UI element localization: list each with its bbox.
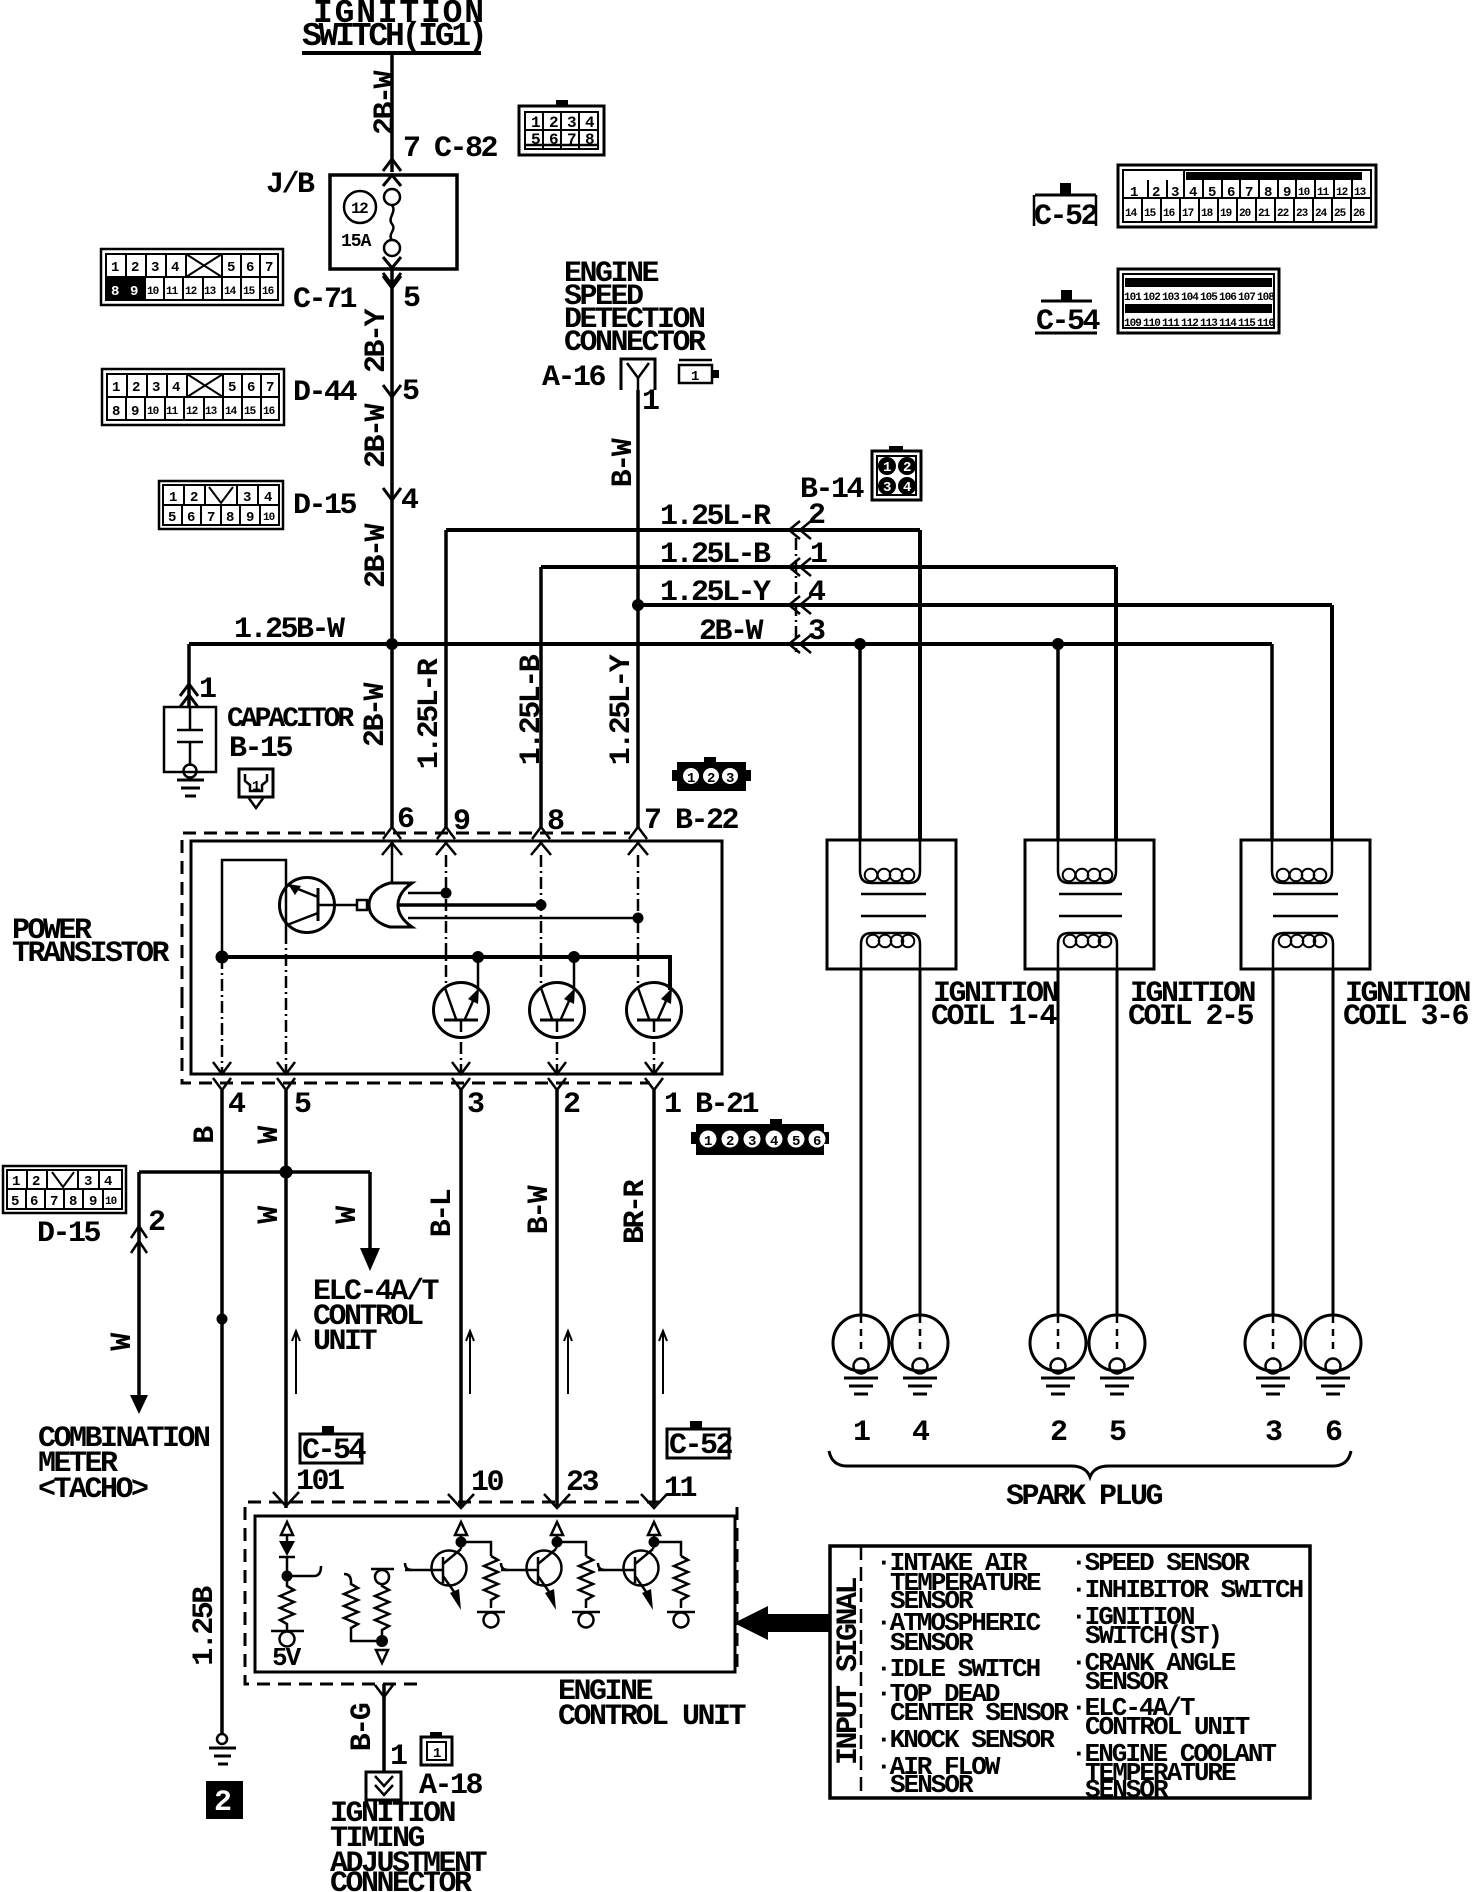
svg-text:4: 4: [401, 484, 419, 518]
svg-text:22: 22: [1277, 208, 1289, 220]
wire B-W down to power transistor pin 7: [636, 605, 640, 829]
svg-text:16: 16: [262, 286, 274, 298]
internal wire pin4 rail: [221, 957, 224, 1074]
svg-text:17: 17: [1182, 208, 1194, 220]
svg-text:5: 5: [403, 282, 420, 316]
svg-text:3: 3: [567, 114, 576, 132]
ignition coil 1-4 box: [827, 840, 956, 969]
svg-text:10: 10: [263, 512, 275, 524]
connector C-71 pass-through chevron: [383, 276, 401, 288]
wire 2B-W down to coil2: [1056, 644, 1060, 840]
svg-text:2: 2: [726, 1134, 734, 1150]
T1 feed wire: [477, 957, 480, 990]
svg-text:5: 5: [531, 131, 540, 149]
svg-text:5V: 5V: [272, 1643, 302, 1673]
fuse exit chevron below box: [383, 273, 401, 285]
junction dot A-16 tap: [632, 599, 644, 611]
fuse F12 symbol top terminal: [384, 189, 400, 205]
svg-text:1.25B: 1.25B: [188, 1586, 222, 1666]
fuse exit chevron inside box: [383, 257, 401, 268]
gate output to pin8 net: [399, 903, 541, 907]
coil 3-6 core: [1273, 893, 1338, 896]
svg-text:104: 104: [1181, 292, 1199, 304]
power transistor dashed outline bottom: [182, 995, 650, 1083]
svg-text:2B-W: 2B-W: [359, 682, 393, 747]
svg-text:1: 1: [12, 1174, 20, 1190]
svg-text:1: 1: [810, 538, 827, 572]
svg-text:16: 16: [1163, 208, 1175, 220]
ECU transistor Q3: [624, 1551, 659, 1586]
svg-text:W: W: [253, 1126, 287, 1144]
junction dot pin8 net: [536, 900, 547, 911]
svg-text:2: 2: [563, 1088, 580, 1122]
transistor T3 base bar: [637, 1019, 671, 1022]
svg-text:8: 8: [111, 284, 119, 300]
ECU resistor R6: [674, 1556, 688, 1608]
svg-text:15: 15: [244, 406, 257, 418]
pin 1 exit chevrons: [645, 1062, 663, 1090]
ECU R6 ground terminal: [667, 1611, 695, 1614]
T2 feed wire: [573, 957, 576, 990]
svg-text:11: 11: [664, 1472, 697, 1506]
ignition coil 3-6 box: [1241, 840, 1370, 969]
coil 2-5 core: [1059, 893, 1122, 896]
power transistor dashed outline top: [182, 833, 630, 1000]
coil 1-4 primary winding: [860, 840, 920, 883]
svg-text:1: 1: [642, 385, 659, 419]
coil 3-6 primary winding: [1272, 840, 1332, 883]
svg-text:2: 2: [549, 114, 558, 132]
svg-text:4: 4: [1189, 185, 1197, 201]
svg-text:16: 16: [263, 406, 275, 418]
svg-text:6: 6: [813, 1134, 821, 1150]
transistor Q0 base line to gate: [318, 904, 357, 907]
svg-text:4: 4: [171, 260, 179, 276]
svg-text:6: 6: [246, 260, 254, 276]
svg-text:C-52: C-52: [1034, 200, 1098, 234]
pin 9 entry chevrons: [436, 827, 456, 855]
ECU transistor Q1: [432, 1551, 467, 1586]
svg-text:1: 1: [883, 460, 891, 476]
svg-text:3: 3: [808, 615, 825, 649]
junction dot tacho tap: [280, 1166, 293, 1179]
svg-text:6: 6: [247, 380, 255, 396]
svg-text:·INHIBITOR SWITCH: ·INHIBITOR SWITCH: [1071, 1575, 1303, 1605]
svg-text:2: 2: [1152, 185, 1160, 201]
connector C-52 label icon top right: [1034, 183, 1098, 234]
input signal box: [830, 1546, 1310, 1798]
connector B-22 icon: [672, 757, 751, 791]
svg-text:106: 106: [1219, 292, 1236, 304]
wire 1.25L-R horizontal: [446, 528, 920, 532]
svg-text:B-L: B-L: [426, 1189, 460, 1237]
ground symbol below capacitor: [177, 780, 204, 796]
svg-text:113: 113: [1200, 318, 1218, 330]
svg-text:1.25L-B: 1.25L-B: [515, 654, 549, 765]
transistor T3 collector diagonal: [638, 988, 649, 1019]
transistor T1 collector diagonal: [445, 988, 456, 1019]
icon single-pin callout A-18: [421, 1732, 452, 1765]
svg-text:5: 5: [1208, 185, 1216, 201]
connector C-71 icon: [101, 249, 283, 305]
ECU solid box: [255, 1516, 735, 1672]
svg-text:SWITCH(IG1): SWITCH(IG1): [302, 18, 485, 55]
svg-text:3: 3: [1171, 185, 1179, 201]
svg-text:5: 5: [11, 1194, 19, 1210]
wire B-W from pin 2: [555, 1090, 559, 1508]
svg-text:10: 10: [1298, 187, 1310, 199]
svg-text:110: 110: [1143, 318, 1160, 330]
svg-text:SENSOR: SENSOR: [1085, 1775, 1169, 1805]
ECU Q3 collector to pin 11: [653, 1542, 654, 1549]
svg-text:2: 2: [190, 490, 198, 506]
svg-text:102: 102: [1143, 292, 1160, 304]
svg-text:11: 11: [1317, 187, 1330, 199]
svg-text:BR-R: BR-R: [619, 1179, 653, 1244]
svg-text:111: 111: [1162, 318, 1180, 330]
spark plug 4: [892, 1315, 948, 1371]
flow arrow on B-L wire: [466, 1331, 474, 1394]
transistor T2 circle: [530, 983, 585, 1038]
NOR gate body: [369, 883, 412, 927]
svg-text:2B-W: 2B-W: [360, 523, 394, 588]
wire W to D-15 and ELC unit: [139, 1170, 370, 1174]
wire 1.25L-Y vertical to coil3: [1330, 605, 1334, 840]
pin 3 exit chevrons: [452, 1062, 470, 1090]
transistor T1 base bar: [444, 1019, 478, 1022]
capacitor B-15 box: [164, 707, 216, 772]
ECU R4 ground terminal: [477, 1611, 505, 1614]
wire B from pin 4: [220, 1090, 224, 1734]
svg-text:7: 7: [1245, 185, 1253, 201]
svg-text:1: 1: [853, 1416, 870, 1450]
internal wire pin6 to NOR gate: [391, 843, 394, 883]
svg-text:8: 8: [226, 510, 234, 526]
connector D-44 icon: [102, 369, 284, 425]
transistor Q0 base bar: [317, 888, 320, 921]
svg-text:2: 2: [1050, 1416, 1067, 1450]
ECU Q2 load branch: [557, 1542, 586, 1556]
svg-text:2: 2: [214, 1786, 231, 1820]
B-14 pin 4 chevrons: [789, 596, 811, 614]
svg-text:4: 4: [903, 480, 911, 496]
svg-text:6: 6: [1227, 185, 1235, 201]
svg-text:B-W: B-W: [523, 1185, 557, 1234]
svg-text:13: 13: [204, 286, 217, 298]
svg-text:CONNECTOR: CONNECTOR: [564, 326, 706, 360]
svg-text:D-15: D-15: [293, 489, 357, 523]
svg-text:·SPEED SENSOR: ·SPEED SENSOR: [1071, 1548, 1250, 1578]
connector C-52 icon 26-pin: [1118, 165, 1376, 227]
B-14 pin 1 chevrons: [789, 558, 811, 576]
svg-text:1: 1: [111, 260, 119, 276]
connector C-54 icon at ECU: [300, 1426, 367, 1468]
svg-text:14: 14: [224, 286, 237, 298]
svg-text:103: 103: [1162, 292, 1180, 304]
connector A-16 Y contact: [627, 363, 649, 390]
transistor T2 output to pin 2: [556, 1020, 559, 1074]
wire down to D-15 pin 2: [137, 1172, 141, 1395]
junction dot main feed: [386, 638, 398, 650]
svg-text:3: 3: [726, 771, 734, 787]
svg-text:CENTER SENSOR: CENTER SENSOR: [890, 1698, 1069, 1728]
gate output to pin9 net: [408, 892, 446, 895]
wire 2B-W D-44 to D-15: [390, 500, 394, 645]
ground symbol: [209, 1747, 236, 1750]
svg-text:108: 108: [1257, 292, 1275, 304]
svg-text:112: 112: [1181, 318, 1198, 330]
svg-text:20: 20: [1239, 208, 1251, 220]
transistor T3 circle: [627, 983, 682, 1038]
NOR gate input bubble: [357, 900, 367, 910]
svg-text:23: 23: [566, 1466, 599, 1500]
svg-text:8: 8: [69, 1194, 77, 1210]
ECU Q1 load branch: [461, 1542, 491, 1556]
wire 1.25L-R vertical to coil1: [918, 530, 922, 840]
svg-text:10: 10: [147, 286, 159, 298]
transistor T3 output to pin 1: [653, 1020, 656, 1074]
svg-text:W: W: [331, 1206, 365, 1224]
svg-text:2B-W: 2B-W: [369, 70, 403, 135]
junction dot coil1 feed: [854, 638, 866, 650]
connector C-54 label icon top right: [1035, 290, 1101, 339]
svg-text:5: 5: [402, 375, 419, 409]
svg-text:B-G: B-G: [346, 1703, 380, 1751]
ECU transistor Q2: [527, 1551, 562, 1586]
svg-text:7 B-22: 7 B-22: [644, 804, 739, 838]
gate output to pin7 net: [408, 917, 638, 920]
wire 1.25L-B down to power transistor pin 8: [539, 567, 543, 829]
wire 1.25L-B horizontal: [541, 565, 1116, 569]
svg-text:19: 19: [1220, 208, 1232, 220]
svg-text:2: 2: [903, 460, 911, 476]
svg-text:2B-W: 2B-W: [360, 403, 394, 468]
pin 11 entry chevron: [641, 1494, 667, 1508]
svg-text:9: 9: [131, 404, 139, 420]
svg-text:12: 12: [351, 200, 368, 218]
junction dot pin9 net: [441, 888, 452, 899]
svg-text:CAPACITOR: CAPACITOR: [227, 704, 354, 735]
flow arrow on BR-R wire: [659, 1331, 667, 1394]
svg-text:13: 13: [1354, 187, 1367, 199]
svg-text:6: 6: [187, 510, 195, 526]
connector C-54 icon 16-pin: [1118, 269, 1279, 333]
svg-text:<TACHO>: <TACHO>: [38, 1473, 148, 1507]
svg-text:4: 4: [770, 1134, 778, 1150]
wire B-L from pin 3: [459, 1090, 463, 1508]
svg-text:7: 7: [207, 510, 215, 526]
svg-text:3: 3: [748, 1134, 756, 1150]
svg-text:B-W: B-W: [607, 438, 641, 487]
svg-text:10: 10: [147, 406, 159, 418]
pin 8 entry chevrons: [531, 827, 551, 855]
spark plug wire to plug 6: [1332, 969, 1335, 1316]
wire 2B-W continues to power transistor pin 6: [390, 644, 394, 829]
svg-text:8: 8: [1264, 185, 1272, 201]
svg-text:4: 4: [264, 490, 272, 506]
ECU resistor R1: [280, 1576, 294, 1630]
svg-text:SWITCH(ST): SWITCH(ST): [1085, 1621, 1221, 1651]
svg-text:5: 5: [228, 380, 236, 396]
svg-text:107: 107: [1238, 292, 1255, 304]
svg-text:9: 9: [130, 284, 138, 300]
svg-text:2: 2: [131, 260, 139, 276]
svg-text:3: 3: [243, 490, 251, 506]
svg-text:13: 13: [205, 406, 218, 418]
wire 1.25L-Y horizontal: [638, 603, 1332, 607]
ECU output triangle down: [376, 1650, 388, 1663]
ECU Q1 collector to pin 10: [460, 1542, 463, 1549]
svg-text:1: 1: [252, 779, 260, 795]
ignition coil 2-5 box: [1025, 840, 1154, 969]
svg-text:15A: 15A: [341, 232, 372, 252]
svg-text:C-54: C-54: [302, 1434, 367, 1468]
ECU 5V terminal: [271, 1630, 304, 1633]
svg-text:CONNECTOR: CONNECTOR: [330, 1867, 472, 1892]
input signal arrow to ECU: [734, 1606, 768, 1640]
coil 2-5 secondary winding: [1058, 933, 1117, 969]
ground terminal circle: [217, 1734, 227, 1744]
transistor T2 collector diagonal: [541, 988, 552, 1019]
svg-text:10: 10: [471, 1466, 504, 1500]
svg-text:6: 6: [30, 1194, 38, 1210]
svg-text:12: 12: [186, 406, 198, 418]
spark plug wire to plug 2: [1057, 969, 1060, 1316]
svg-text:SPARK PLUG: SPARK PLUG: [1006, 1480, 1163, 1514]
svg-text:14: 14: [225, 406, 238, 418]
svg-text:1: 1: [704, 1134, 712, 1150]
svg-text:1: 1: [199, 673, 216, 707]
spark plug wire to plug 4: [919, 969, 922, 1316]
svg-text:2B-Y: 2B-Y: [360, 308, 394, 373]
emitter bus: [222, 957, 670, 990]
ground reference 2 black box: [206, 1781, 243, 1819]
connector D-15 icon lower left: [3, 1166, 126, 1213]
svg-text:1: 1: [112, 380, 120, 396]
pin 5 exit chevrons: [277, 1062, 295, 1090]
capacitor element: [177, 707, 203, 766]
svg-text:15: 15: [1144, 208, 1157, 220]
junction dot pin7 net: [633, 913, 644, 924]
svg-text:SENSOR: SENSOR: [890, 1770, 974, 1800]
svg-text:14: 14: [1125, 208, 1138, 220]
transistor T2 base bar: [540, 1019, 574, 1022]
icon single-pin callout for A-16: [679, 360, 719, 385]
connector D-44 chevron: [383, 385, 401, 397]
svg-text:116: 116: [1257, 318, 1274, 330]
svg-text:3: 3: [883, 480, 891, 496]
svg-text:3: 3: [151, 260, 159, 276]
svg-text:2B-W: 2B-W: [699, 615, 764, 649]
spark plug wire to plug 5: [1116, 969, 1119, 1316]
svg-text:2: 2: [32, 1174, 40, 1190]
connector B-14 icon: [872, 446, 921, 500]
svg-text:1: 1: [1130, 185, 1138, 201]
spark plug 5: [1089, 1315, 1145, 1371]
fuse F12 element: [391, 205, 394, 240]
transistor Q0 collector emitter rail: [285, 878, 288, 932]
internal rail corner to PNP transistor: [222, 860, 286, 957]
wire 2B-W down to coil3: [1270, 644, 1274, 840]
ECU resistor R5: [579, 1556, 593, 1608]
svg-text:UNIT: UNIT: [313, 1325, 378, 1359]
wire to ELC-4A/T control unit: [368, 1172, 372, 1248]
junction dot on B wire: [217, 1314, 228, 1325]
wire B-G from ECU: [382, 1684, 386, 1772]
pin 23 entry chevron: [544, 1494, 570, 1508]
svg-text:D-44: D-44: [293, 376, 358, 410]
brace under spark plugs: [829, 1451, 1351, 1477]
svg-text:12: 12: [1336, 187, 1348, 199]
svg-text:·KNOCK SENSOR: ·KNOCK SENSOR: [876, 1725, 1055, 1755]
connector C-82 icon: [519, 100, 604, 155]
svg-text:A-16: A-16: [542, 361, 606, 395]
svg-text:15: 15: [243, 286, 256, 298]
svg-text:9: 9: [246, 510, 254, 526]
svg-text:1 B-21: 1 B-21: [664, 1088, 759, 1122]
svg-text:1.25L-B: 1.25L-B: [660, 538, 771, 572]
svg-text:21: 21: [1258, 208, 1271, 220]
spark plug 2: [1030, 1315, 1086, 1371]
B-14 connector grouping line: [795, 538, 798, 652]
node underline: [302, 51, 481, 55]
svg-text:9: 9: [89, 1194, 97, 1210]
svg-text:2: 2: [148, 1206, 165, 1240]
coil 1-4 core: [861, 893, 926, 896]
flow arrow on W wire: [292, 1331, 300, 1394]
ECU dashed outline right: [736, 1507, 739, 1671]
connector B-21 icon: [691, 1119, 829, 1155]
pin 7 entry chevrons: [628, 827, 648, 855]
svg-text:2: 2: [707, 771, 715, 787]
svg-text:C-71: C-71: [293, 283, 357, 317]
svg-text:COIL 2-5: COIL 2-5: [1128, 1000, 1254, 1034]
svg-text:3: 3: [467, 1088, 484, 1122]
B-14 pin 2 chevrons: [789, 521, 811, 539]
svg-text:1: 1: [390, 1740, 407, 1774]
svg-text:1.25L-Y: 1.25L-Y: [605, 654, 639, 765]
svg-text:B: B: [189, 1126, 223, 1144]
capacitor pin 1 chevrons: [180, 684, 198, 707]
A-18 double chevron: [375, 1776, 393, 1795]
transistor T2 emitter diagonal with arrow: [561, 992, 573, 1019]
svg-text:5: 5: [294, 1088, 311, 1122]
svg-text:7: 7: [50, 1194, 58, 1210]
svg-text:3: 3: [1265, 1416, 1282, 1450]
transistor Q0 collector diagonal: [287, 913, 318, 925]
wire 2B-Y J/B to C-71: [390, 269, 394, 397]
ECU dashed outline: [245, 1502, 660, 1684]
svg-text:105: 105: [1200, 292, 1218, 304]
fuse F12 bottom terminal: [384, 240, 400, 256]
svg-text:7: 7: [265, 260, 273, 276]
svg-text:26: 26: [1353, 208, 1365, 220]
ECU diode D1: [279, 1541, 295, 1556]
input signal divider: [860, 1546, 863, 1798]
svg-text:W: W: [106, 1333, 140, 1351]
svg-text:CONTROL UNIT: CONTROL UNIT: [558, 1700, 747, 1734]
wire 1.25B-W down to capacitor: [187, 644, 191, 707]
svg-text:1: 1: [433, 1746, 441, 1762]
pin 2 exit chevrons: [548, 1062, 566, 1090]
svg-text:D-15: D-15: [37, 1217, 101, 1251]
svg-text:4: 4: [228, 1088, 246, 1122]
junction dot T1 feed: [472, 951, 484, 963]
svg-text:9: 9: [1283, 185, 1291, 201]
transistor T3 emitter diagonal with arrow: [658, 992, 670, 1019]
connector C-82 mating chevron upper: [383, 159, 401, 171]
svg-text:25: 25: [1334, 208, 1347, 220]
